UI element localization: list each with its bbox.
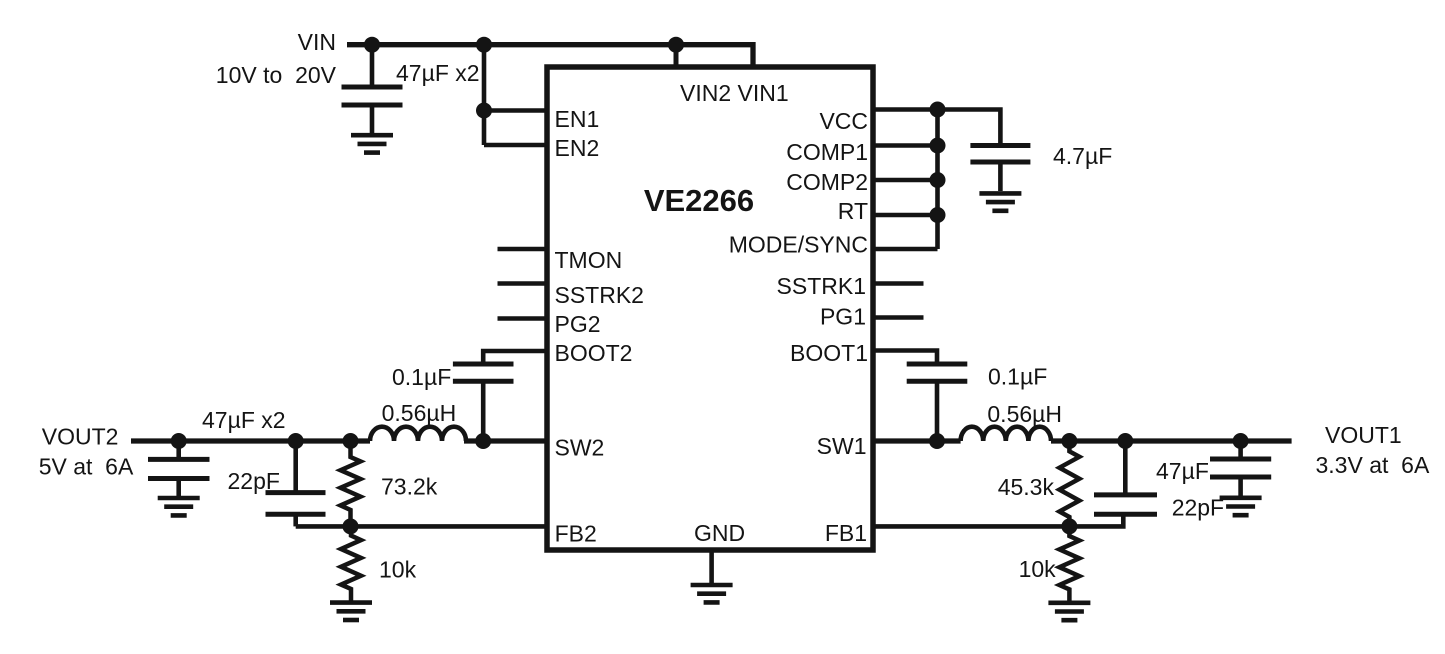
wire VCC pin to bypass cap (873, 110, 1000, 146)
svg-text:10V to 20V: 10V to 20V (216, 62, 337, 88)
wire vertical bus VCC-COMP1-COMP2-RT-MODE (935, 110, 940, 250)
capacitor 47uF x2 output2: top lead (176, 441, 181, 459)
svg-text:47µF: 47µF (1156, 458, 1209, 484)
resistor 10k ch2 (341, 526, 361, 602)
wire COMP1 pin (873, 143, 938, 148)
svg-text:0.56µH: 0.56µH (987, 401, 1062, 427)
svg-text:5V at 6A: 5V at 6A (39, 453, 134, 479)
ground below 10k ch1 (1048, 603, 1090, 620)
wire SSTRK1 pin stub (873, 281, 924, 286)
capacitor 47uF x2 input: top lead (370, 45, 375, 87)
ground below output2 capacitor (158, 498, 200, 515)
svg-text:0.1µF: 0.1µF (988, 364, 1047, 390)
node junction RT / bus (930, 207, 946, 223)
svg-text:RT: RT (838, 198, 868, 224)
svg-text:COMP2: COMP2 (786, 169, 868, 195)
wire FB1 line (873, 514, 1123, 526)
capacitor 0.1uF boot2: plates (453, 364, 514, 381)
ground below 4.7uF capacitor (979, 193, 1021, 210)
wire PG2 pin stub (498, 316, 548, 321)
node junction FB2 divider (343, 518, 359, 534)
svg-text:FB2: FB2 (555, 521, 597, 547)
svg-text:BOOT1: BOOT1 (790, 340, 868, 366)
svg-text:0.1µF: 0.1µF (392, 364, 451, 390)
svg-text:BOOT2: BOOT2 (555, 340, 633, 366)
svg-text:TMON: TMON (555, 247, 623, 273)
node junction VOUT2 rail at 73.2k (343, 433, 359, 449)
capacitor 22pF ch1: top lead (1123, 441, 1128, 495)
node junction SW2 / boot cap (475, 433, 491, 449)
svg-text:PG2: PG2 (555, 311, 601, 337)
node junction VOUT1 rail at 45.3k (1061, 433, 1077, 449)
resistor 10k ch1 (1059, 526, 1079, 601)
svg-text:SW2: SW2 (555, 435, 605, 461)
wire SW2 pin from inductor to IC (464, 438, 547, 443)
svg-text:VCC: VCC (819, 108, 868, 134)
node junction VOUT1 rail at 22pF (1117, 433, 1133, 449)
svg-text:FB1: FB1 (825, 520, 867, 546)
svg-text:SSTRK2: SSTRK2 (555, 282, 644, 308)
node junction FB1 divider (1061, 518, 1077, 534)
node junction COMP1 / bus (930, 138, 946, 154)
svg-text:10k: 10k (379, 556, 417, 582)
wire EN drop from VIN rail (482, 45, 487, 145)
wire PG1 pin stub (873, 315, 924, 320)
capacitor 47uF x2 output2: bottom lead (176, 479, 181, 497)
capacitor 4.7uF: bottom lead (998, 162, 1003, 191)
node junction on VIN rail at VIN2 stub (668, 37, 684, 53)
ground below 10k ch2 (330, 603, 372, 620)
capacitor 0.1uF boot1: bottom lead to SW1 (935, 381, 940, 441)
capacitor 22pF ch1: plates (1094, 495, 1157, 514)
svg-text:SSTRK1: SSTRK1 (777, 273, 866, 299)
IC U1 VE2266 body (547, 67, 873, 550)
capacitor 47uF x2 input: plates (342, 87, 403, 105)
wire VOUT2 rail (131, 438, 370, 443)
svg-text:47µF x2: 47µF x2 (396, 60, 480, 86)
ground below output1 capacitor (1220, 498, 1262, 515)
capacitor 47uF output1: bottom lead (1238, 477, 1243, 496)
capacitor 47uF output1: top lead (1238, 441, 1243, 459)
inductor 0.56uH channel 1 (961, 427, 1051, 441)
wire VIN2 stub from rail to IC top (674, 45, 679, 66)
capacitor 0.1uF boot1: plates (907, 364, 968, 381)
svg-text:VE2266: VE2266 (644, 183, 754, 218)
node junction on VIN rail at input cap (364, 37, 380, 53)
wire BOOT1 pin to bootstrap cap (873, 351, 937, 365)
svg-text:4.7µF: 4.7µF (1053, 143, 1112, 169)
wire VOUT1 rail (1051, 438, 1292, 443)
wire VIN top rail (347, 45, 753, 66)
svg-text:GND: GND (694, 520, 745, 546)
capacitor 4.7uF: plates (970, 146, 1030, 163)
wire MODE/SYNC pin (873, 247, 938, 252)
node junction on VIN rail at EN drop (476, 37, 492, 53)
ground below IC GND pin (691, 585, 733, 602)
svg-text:3.3V at 6A: 3.3V at 6A (1316, 452, 1430, 478)
node junction SW1 / boot cap (929, 433, 945, 449)
node junction COMP2 / bus (930, 172, 946, 188)
svg-text:47µF x2: 47µF x2 (202, 407, 286, 433)
svg-text:MODE/SYNC: MODE/SYNC (729, 232, 868, 258)
svg-text:73.2k: 73.2k (381, 474, 438, 500)
svg-text:10k: 10k (1019, 556, 1057, 582)
wire EN1 pin (484, 108, 547, 113)
svg-text:22pF: 22pF (228, 468, 280, 494)
svg-text:SW1: SW1 (817, 433, 867, 459)
capacitor 22pF ch2: bottom stub to FB2 line (293, 514, 298, 526)
wire TMON pin stub (498, 247, 548, 252)
capacitor 22pF ch2: top lead (293, 441, 298, 493)
inductor 0.56uH channel 2 (370, 427, 466, 441)
wire FB2 line (296, 524, 547, 529)
ground below input capacitor (351, 135, 393, 152)
node junction VOUT2 rail at output cap (171, 433, 187, 449)
wire EN2 pin (484, 143, 547, 148)
svg-text:PG1: PG1 (820, 304, 866, 330)
svg-text:VIN2 VIN1: VIN2 VIN1 (680, 80, 789, 106)
wire SSTRK2 pin stub (498, 281, 548, 286)
wire GND pin stub (709, 552, 714, 583)
capacitor 47uF x2 output2: plates (148, 459, 210, 478)
svg-text:EN1: EN1 (555, 106, 600, 132)
svg-text:45.3k: 45.3k (998, 474, 1055, 500)
capacitor 0.1uF boot2: bottom lead to SW2 (481, 381, 486, 441)
svg-text:22pF: 22pF (1172, 495, 1224, 521)
svg-text:COMP1: COMP1 (786, 139, 868, 165)
svg-text:VOUT2: VOUT2 (42, 423, 119, 449)
resistor 45.3k (1059, 441, 1079, 526)
capacitor 47uF output1: plates (1210, 459, 1271, 477)
node junction VOUT2 rail at 22pF (288, 433, 304, 449)
node junction VOUT1 rail at output cap (1233, 433, 1249, 449)
node junction VCC / bus (930, 102, 946, 118)
resistor 73.2k (341, 441, 361, 526)
svg-text:EN2: EN2 (555, 135, 600, 161)
svg-text:VOUT1: VOUT1 (1325, 422, 1402, 448)
svg-text:VIN: VIN (298, 29, 336, 55)
wire RT pin (873, 213, 938, 218)
capacitor 22pF ch2: plates (266, 493, 326, 515)
wire BOOT2 pin to bootstrap cap (483, 351, 547, 364)
capacitor 47uF x2 input: bottom lead (370, 105, 375, 133)
node junction at EN1 (476, 103, 492, 119)
wire COMP2 pin (873, 178, 938, 183)
svg-text:0.56µH: 0.56µH (382, 400, 457, 426)
wire SW1 pin to inductor (873, 438, 961, 443)
